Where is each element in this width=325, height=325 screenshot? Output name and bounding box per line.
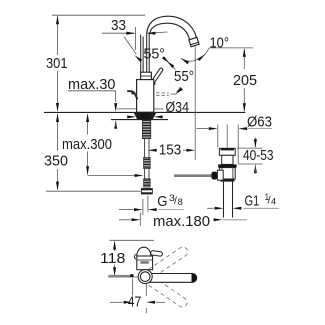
plug cap <box>219 148 235 155</box>
lever 45 degrees <box>150 68 163 85</box>
extension line diameter 63 left <box>217 124 219 147</box>
dimension 350 <box>44 113 68 190</box>
dimension 205 <box>233 48 257 112</box>
extension line 33 left <box>134 27 136 50</box>
angle arc 10 degrees <box>180 48 209 64</box>
svg-text:301: 301 <box>46 55 68 72</box>
extension line G3/8 left <box>142 199 144 215</box>
spout arc inner <box>149 23 189 40</box>
label G3/8 <box>119 193 184 211</box>
dimension 153 <box>148 142 195 159</box>
cartridge cap <box>141 72 152 79</box>
dimension diameter 34 <box>117 99 189 119</box>
svg-text:350: 350 <box>44 153 68 170</box>
top view: lever axis line <box>108 276 152 278</box>
svg-text:Ø63: Ø63 <box>247 113 272 130</box>
svg-text:8: 8 <box>178 197 183 207</box>
dimension 301 <box>46 15 68 111</box>
dimension max.30 <box>68 76 117 129</box>
top view: cartridge block <box>137 256 153 270</box>
dimension 47 <box>110 279 165 314</box>
svg-text:max.180: max.180 <box>153 213 210 230</box>
threaded shank <box>142 120 150 139</box>
svg-text:G: G <box>157 194 167 210</box>
extension line G3/8 right <box>147 196 149 213</box>
hose connector lower <box>144 179 151 187</box>
faucet body <box>137 80 154 113</box>
plug neck <box>222 155 233 164</box>
hose end nut G3/8 <box>141 189 152 195</box>
svg-text:205: 205 <box>233 72 257 89</box>
under-deck clamp nut <box>134 113 156 120</box>
extension line max.180 left <box>139 213 141 227</box>
svg-text:/: / <box>174 195 177 207</box>
dimension 40-53 <box>237 138 274 175</box>
10 degree reference line <box>194 47 196 161</box>
label 10 degrees <box>209 35 253 52</box>
shank through deck <box>141 112 150 119</box>
extension line spout top level <box>52 14 145 16</box>
svg-text:153: 153 <box>159 142 182 159</box>
dimension 118 <box>100 241 125 276</box>
drain body <box>219 168 235 179</box>
top view: extension line lever tip level <box>109 239 153 241</box>
dimension 33 <box>102 17 168 35</box>
hose connector upper <box>144 157 151 168</box>
svg-text:55°: 55° <box>174 68 194 85</box>
arrow at hose for max.300 <box>135 174 144 177</box>
angle label 55 degrees upper <box>124 37 175 70</box>
svg-text:max.300: max.300 <box>62 136 112 153</box>
top view: spout dome <box>137 247 151 256</box>
lever boss <box>151 80 155 84</box>
drain body bottom band <box>220 179 234 182</box>
aerator tip <box>189 37 199 47</box>
pop-up linkage rod <box>174 170 223 180</box>
countertop deck line <box>44 111 245 113</box>
svg-text:10°: 10° <box>210 35 230 52</box>
top view: dashed lever lower <box>148 277 189 309</box>
lever horizontal position dashed <box>156 93 176 95</box>
drain tailpipe <box>224 182 233 218</box>
countertop deck bottom line <box>111 119 168 121</box>
supply hoses lower <box>145 169 149 179</box>
svg-text:40-53: 40-53 <box>243 147 274 164</box>
svg-text:33: 33 <box>111 17 126 34</box>
top view: dashed lever upper <box>148 245 189 277</box>
drain axis line <box>226 124 228 147</box>
supply hoses upper <box>145 139 149 158</box>
top view: body ring <box>138 270 152 284</box>
extension line 350 bottom <box>46 190 141 192</box>
extension line diameter 63 right <box>237 124 239 163</box>
svg-text:G1: G1 <box>245 193 260 209</box>
drain flange <box>218 164 236 167</box>
pop-up pull rod side view <box>127 91 137 99</box>
spout riser column lines <box>141 33 150 72</box>
svg-text:4: 4 <box>271 197 276 207</box>
dimension max.180 <box>119 213 247 230</box>
dimension diameter 63 <box>197 113 273 130</box>
top view: ear clip left <box>134 254 136 259</box>
top view: pull rod pointing left <box>109 274 134 277</box>
top view: solid lever bar <box>150 274 197 283</box>
label G1 1/4 <box>207 192 279 210</box>
top view: pop-up rod knob <box>150 250 162 256</box>
dimension max.300 <box>62 113 112 175</box>
svg-text:118: 118 <box>100 250 125 267</box>
spout arc outer <box>147 16 197 37</box>
extension line max.300 bottom <box>88 175 139 177</box>
svg-text:Ø34: Ø34 <box>166 99 190 116</box>
svg-text:47: 47 <box>128 294 142 311</box>
angle label 55 degrees lower <box>166 60 194 95</box>
svg-text:55°: 55° <box>144 45 166 62</box>
